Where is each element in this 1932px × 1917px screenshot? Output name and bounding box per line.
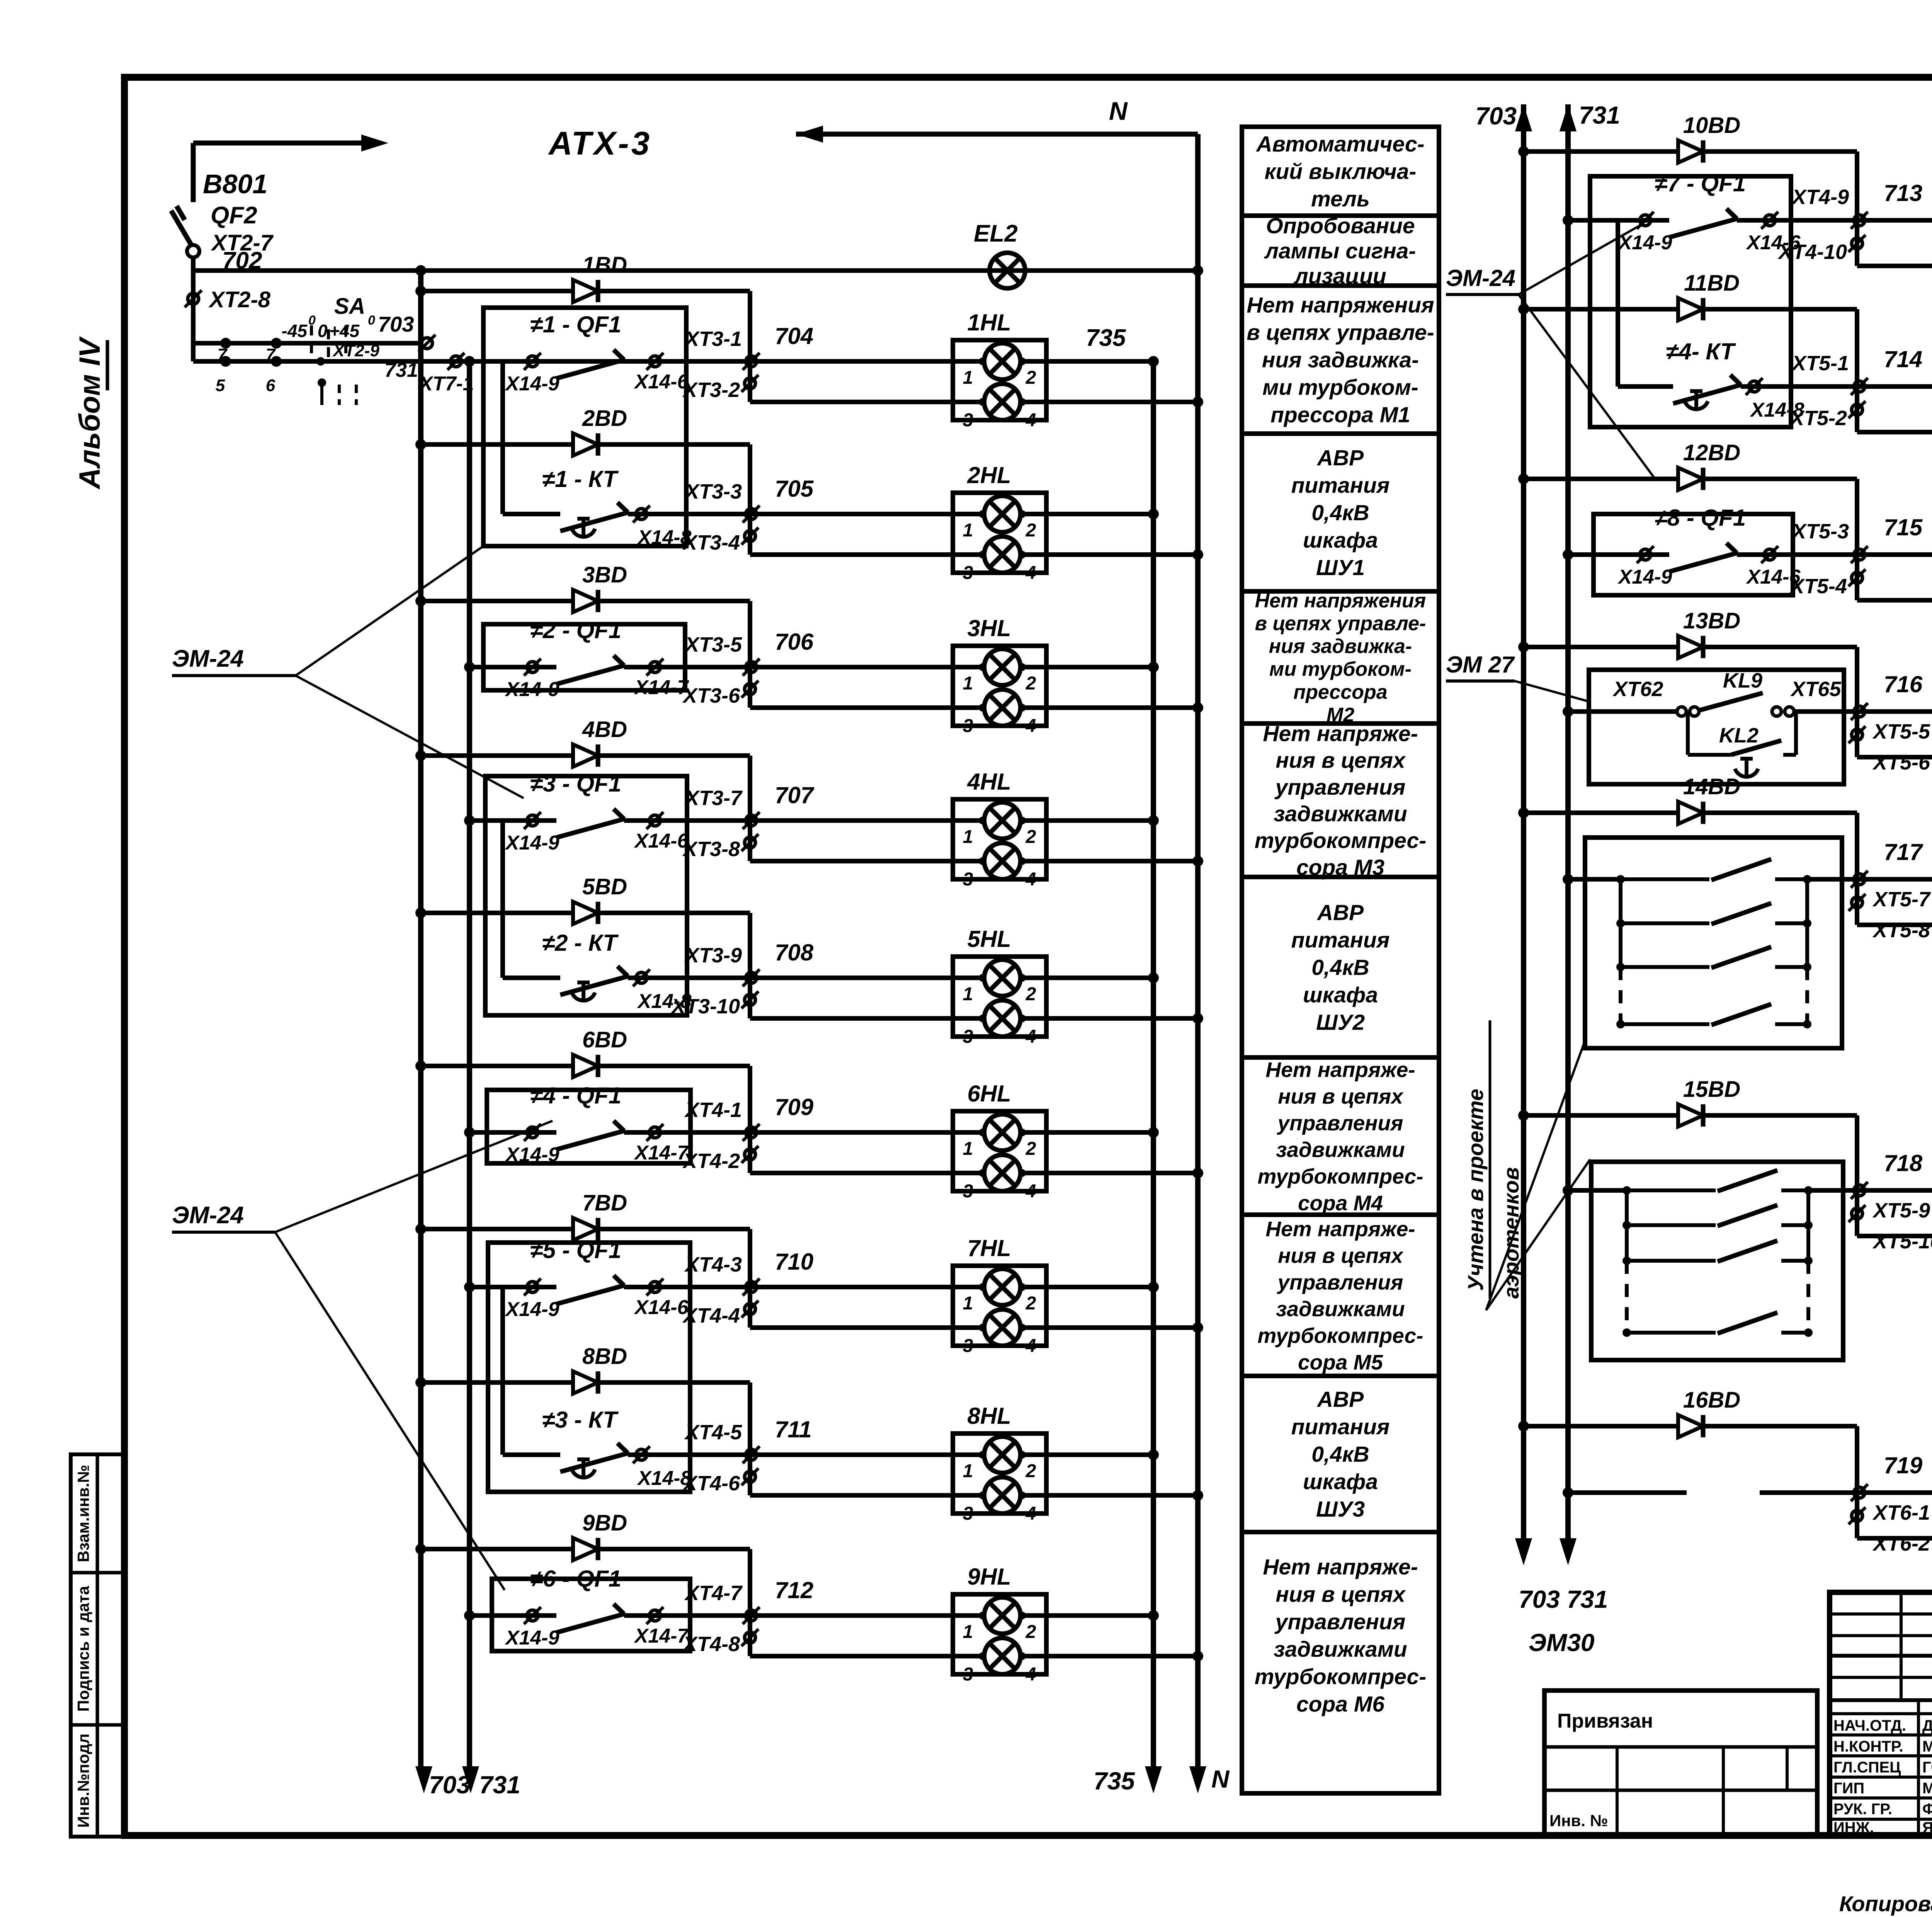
bus N left — [796, 132, 1198, 137]
dropper wire to lamp 10HL pins 3-4 — [1855, 152, 1859, 266]
svg-text:X14-9: X14-9 — [1617, 566, 1672, 588]
svg-text:МОСЕЕНКО: МОСЕЕНКО — [1922, 1738, 1932, 1755]
svg-text:714: 714 — [1884, 346, 1922, 372]
diode 6BD — [573, 1055, 598, 1077]
svg-text:ХТ3-8: ХТ3-8 — [682, 838, 740, 861]
svg-text:Н.КОНТР.: Н.КОНТР. — [1833, 1738, 1903, 1755]
node B801 riser — [191, 143, 196, 202]
terminal ХТ3-9 — [746, 972, 757, 983]
svg-text:3: 3 — [963, 716, 973, 736]
svg-text:0: 0 — [368, 313, 375, 328]
svg-text:N: N — [1109, 97, 1128, 125]
svg-text:2: 2 — [1026, 984, 1036, 1004]
svg-text:7BD: 7BD — [582, 1190, 627, 1216]
terminal ХТ4-3 — [746, 1282, 757, 1292]
svg-text:в цепях управле-: в цепях управле- — [1255, 613, 1426, 635]
svg-text:B801: B801 — [203, 169, 267, 199]
svg-text:X14-6: X14-6 — [1746, 232, 1801, 254]
wire lamp 9HL pin2 to bus 735 — [1020, 1613, 1153, 1618]
diode 5BD feed wire — [415, 907, 426, 918]
svg-text:716: 716 — [1884, 671, 1923, 697]
terminal ХТ3-6 — [745, 684, 755, 695]
svg-text:9BD: 9BD — [582, 1510, 627, 1536]
svg-text:4: 4 — [1026, 563, 1036, 583]
svg-text:ХТ7-1: ХТ7-1 — [418, 373, 474, 395]
diode 9BD — [573, 1538, 598, 1560]
dropper wire to lamp 1HL pins 3-4 — [748, 291, 752, 402]
svg-text:4: 4 — [1026, 1336, 1036, 1356]
svg-text:712: 712 — [775, 1577, 813, 1603]
wire lamp 3HL pin2 to bus 735 — [1020, 665, 1153, 669]
svg-text:Альбом IV: Альбом IV — [73, 336, 106, 490]
wire lamp 1HL pin4 to bus N — [1020, 400, 1198, 404]
svg-text:X14-9: X14-9 — [505, 373, 560, 395]
svg-text:прессора: прессора — [1293, 681, 1387, 703]
svg-text:X14-8: X14-8 — [637, 990, 692, 1013]
terminal XT2-8 — [191, 271, 196, 361]
dropper wire to lamp 4HL pins 3-4 — [748, 756, 752, 861]
svg-text:≠4 - QF1: ≠4 - QF1 — [530, 1083, 621, 1108]
terminal ХТ4-4 — [745, 1304, 755, 1314]
svg-text:ХТ5-1: ХТ5-1 — [1791, 352, 1849, 375]
svg-text:711: 711 — [775, 1416, 812, 1442]
svg-text:ХТ4-7: ХТ4-7 — [684, 1582, 743, 1605]
svg-text:задвижками: задвижками — [1274, 802, 1407, 826]
svg-text:ХТ2-9: ХТ2-9 — [332, 341, 379, 360]
svg-text:сора М6: сора М6 — [1296, 1692, 1384, 1716]
diode 4BD feed wire — [415, 750, 426, 761]
svg-text:735: 735 — [1094, 1767, 1135, 1795]
svg-text:управления: управления — [1274, 775, 1406, 800]
relay box #7-QF1 / #4-KT — [1590, 176, 1791, 427]
svg-text:шкафа: шкафа — [1303, 1469, 1378, 1494]
svg-text:ГИП: ГИП — [1833, 1780, 1864, 1797]
wire lamp 5HL pin4 to bus N — [1020, 1016, 1198, 1021]
dropper wire to lamp 13HL pins 3-4 — [1855, 647, 1859, 757]
svg-text:X14-9: X14-9 — [505, 678, 560, 701]
wire lamp 9HL pin4 to bus N — [1020, 1654, 1198, 1658]
svg-text:704: 704 — [775, 323, 813, 349]
svg-text:ния в цепях: ния в цепях — [1278, 1084, 1404, 1108]
switch SA row 7 — [193, 341, 410, 346]
svg-text:Взам.инв.№: Взам.инв.№ — [74, 1465, 92, 1562]
svg-text:1: 1 — [963, 1461, 973, 1481]
wire lamp 6HL pin2 to bus 735 — [1020, 1130, 1153, 1135]
svg-text:10BD: 10BD — [1683, 113, 1740, 138]
diode 12BD feed wire — [1518, 473, 1529, 484]
svg-text:ния задвижка-: ния задвижка- — [1262, 347, 1419, 372]
diode 10BD feed wire — [1518, 146, 1529, 157]
svg-text:KL9: KL9 — [1723, 669, 1762, 692]
svg-text:Нет напряже-: Нет напряже- — [1263, 1554, 1418, 1579]
diode 11BD feed wire — [1518, 304, 1529, 315]
svg-text:5BD: 5BD — [582, 874, 627, 899]
svg-text:731: 731 — [1579, 101, 1620, 129]
svg-text:1: 1 — [963, 827, 973, 847]
diode 12BD — [1678, 468, 1703, 490]
svg-text:12BD: 12BD — [1683, 440, 1740, 465]
svg-text:703: 703 — [1475, 102, 1517, 130]
svg-text:Автоматичес-: Автоматичес- — [1255, 132, 1424, 157]
svg-text:≠7 - QF1: ≠7 - QF1 — [1655, 170, 1746, 196]
breaker QF2 — [171, 211, 192, 246]
svg-text:ХТ3-7: ХТ3-7 — [684, 787, 743, 810]
diode 7BD feed wire — [415, 1224, 426, 1234]
svg-text:731: 731 — [479, 1771, 520, 1799]
svg-text:8HL: 8HL — [967, 1403, 1011, 1429]
svg-text:ШУ2: ШУ2 — [1316, 1010, 1365, 1035]
diode 4BD — [573, 744, 598, 767]
svg-text:4: 4 — [1026, 1181, 1036, 1202]
terminal ХТ5-2 — [1852, 404, 1862, 415]
svg-text:ФЕДОРОВА: ФЕДОРОВА — [1922, 1801, 1932, 1818]
diode 13BD feed wire — [1518, 642, 1529, 652]
svg-text:Опробование: Опробование — [1266, 214, 1415, 238]
svg-text:6HL: 6HL — [967, 1081, 1011, 1107]
terminal ХТ5-1 — [1854, 381, 1865, 392]
terminal XT7-1 — [451, 356, 461, 367]
breaker contact #1-QF1 — [469, 359, 556, 364]
terminal ХТ4-5 — [746, 1449, 757, 1460]
svg-text:X14-7: X14-7 — [634, 676, 689, 699]
diode 7BD — [573, 1218, 598, 1240]
svg-text:ми турбоком-: ми турбоком- — [1269, 658, 1412, 681]
svg-text:X14-9: X14-9 — [505, 832, 560, 854]
wire lamp 1HL pin2 to bus 735 — [1020, 359, 1153, 364]
terminal ХТ3-7 — [746, 815, 757, 826]
diode 1BD feed wire — [415, 286, 426, 296]
remote contact box upper — [1585, 838, 1842, 1048]
svg-text:≠4- КТ: ≠4- КТ — [1666, 339, 1736, 364]
svg-text:ХТ5-3: ХТ5-3 — [1791, 520, 1849, 543]
time relay contact #1-КТ — [500, 361, 505, 514]
svg-text:708: 708 — [775, 940, 814, 965]
svg-text:ЭМ-24: ЭМ-24 — [172, 1202, 244, 1229]
svg-text:ния в цепях: ния в цепях — [1276, 1582, 1406, 1607]
breaker contact #7 - QF1 — [1568, 218, 1669, 223]
svg-text:АТХ-3: АТХ-3 — [548, 125, 652, 162]
svg-text:МОСЕЕНКО: МОСЕЕНКО — [1922, 1780, 1932, 1797]
terminal ХТ4-1 — [746, 1127, 757, 1138]
svg-text:3: 3 — [963, 1181, 973, 1202]
dropper wire to lamp 8HL pins 3-4 — [748, 1382, 752, 1495]
svg-text:1: 1 — [963, 520, 973, 541]
svg-text:ХТ3-1: ХТ3-1 — [684, 327, 742, 351]
diode 10BD — [1678, 140, 1703, 163]
svg-text:1: 1 — [963, 673, 973, 694]
svg-text:ХТ4-1: ХТ4-1 — [684, 1098, 742, 1122]
svg-text:прессора М1: прессора М1 — [1270, 402, 1410, 427]
dropper wire to lamp 11HL pins 3-4 — [1855, 309, 1859, 432]
svg-text:Инв. №: Инв. № — [1549, 1811, 1608, 1830]
svg-text:ния задвижка-: ния задвижка- — [1269, 635, 1412, 658]
svg-text:X14-9: X14-9 — [505, 1298, 560, 1321]
wire lamp 4HL pin2 to bus 735 — [1020, 818, 1153, 823]
svg-text:13BD: 13BD — [1683, 608, 1740, 633]
svg-text:QF2: QF2 — [211, 202, 257, 229]
wire lamp 8HL pin2 to bus 735 — [1020, 1452, 1153, 1457]
dropper wire to lamp 6HL pins 3-4 — [748, 1066, 752, 1173]
svg-text:719: 719 — [1884, 1452, 1923, 1478]
breaker contact #8 - QF1 — [1568, 552, 1669, 557]
svg-text:703: 703 — [378, 312, 414, 336]
terminal ХТ4-9 — [1854, 215, 1865, 226]
svg-text:Копировал: Алешикова: Копировал: Алешикова — [1839, 1891, 1932, 1916]
relay box KL9 / KL2 — [1589, 670, 1844, 784]
diode 6BD feed wire — [415, 1061, 426, 1071]
svg-text:3: 3 — [963, 1336, 973, 1356]
svg-text:ШУ3: ШУ3 — [1316, 1497, 1365, 1522]
diode 9BD feed wire — [415, 1544, 426, 1554]
svg-text:3: 3 — [963, 869, 973, 890]
svg-text:6: 6 — [266, 376, 276, 395]
diode 14BD feed wire — [1518, 807, 1529, 818]
svg-text:11BD: 11BD — [1684, 271, 1740, 296]
svg-text:1: 1 — [963, 1139, 973, 1159]
svg-text:питания: питания — [1291, 1415, 1390, 1439]
svg-text:KL2: KL2 — [1719, 724, 1759, 747]
svg-text:АВР: АВР — [1316, 1387, 1364, 1412]
wire lamp 5HL pin2 to bus 735 — [1020, 976, 1153, 980]
svg-text:ГОЛЬЦМАН: ГОЛЬЦМАН — [1922, 1759, 1932, 1776]
dropper wire to lamp 15HL pins 3-4 — [1855, 1115, 1859, 1236]
svg-text:3: 3 — [963, 1027, 973, 1047]
svg-text:ЯНЧЕНКО: ЯНЧЕНКО — [1922, 1819, 1932, 1836]
svg-text:АВР: АВР — [1316, 446, 1364, 470]
terminal XT2-9 — [316, 357, 325, 366]
terminal ХТ5-10 — [1852, 1208, 1862, 1219]
breaker contact #5-QF1 — [469, 1285, 556, 1289]
svg-text:тель: тель — [1311, 187, 1370, 211]
svg-text:-45: -45 — [282, 321, 308, 341]
terminal ХТ3-8 — [745, 837, 755, 848]
svg-text:4HL: 4HL — [967, 769, 1011, 795]
svg-text:0: 0 — [318, 321, 328, 341]
svg-text:ХТ5-10: ХТ5-10 — [1872, 1230, 1932, 1253]
bus 731 left — [464, 356, 475, 367]
svg-text:0,4кВ: 0,4кВ — [1311, 955, 1369, 980]
diode 16BD — [1678, 1415, 1703, 1437]
svg-text:2: 2 — [1026, 827, 1036, 847]
diode 3BD feed wire — [415, 596, 426, 606]
svg-text:в цепях управле-: в цепях управле- — [1247, 320, 1434, 345]
diode 13BD — [1678, 636, 1703, 658]
wire lamp 3HL pin4 to bus N — [1020, 705, 1198, 710]
dropper wire to lamp 5HL pins 3-4 — [748, 913, 752, 1018]
svg-text:735: 735 — [1086, 325, 1126, 351]
svg-text:EL2: EL2 — [974, 220, 1018, 247]
breaker contact #4-QF1 — [469, 1130, 556, 1135]
svg-text:2: 2 — [1026, 368, 1036, 388]
svg-text:7HL: 7HL — [967, 1235, 1011, 1261]
terminal ХТ3-10 — [745, 994, 755, 1005]
svg-text:3: 3 — [963, 563, 973, 583]
breaker contact #3-QF1 — [469, 818, 556, 823]
svg-text:1: 1 — [963, 1622, 973, 1642]
wire 719 with gap — [1568, 1490, 1687, 1495]
dropper wire to lamp 9HL pins 3-4 — [748, 1549, 752, 1656]
title block outline — [1830, 1592, 1932, 1835]
svg-text:5: 5 — [216, 376, 225, 395]
svg-text:2BD: 2BD — [582, 406, 627, 431]
svg-text:X14-8: X14-8 — [637, 1467, 692, 1490]
svg-text:X14-6: X14-6 — [634, 1296, 689, 1319]
svg-text:управления: управления — [1274, 1609, 1406, 1634]
relay box #3-QF1 / #2-KT — [485, 776, 687, 1015]
svg-text:4: 4 — [1026, 1027, 1036, 1047]
svg-text:задвижками: задвижками — [1276, 1297, 1405, 1321]
diode 1BD — [573, 280, 598, 302]
svg-text:ХТ4-3: ХТ4-3 — [684, 1253, 742, 1276]
svg-text:706: 706 — [775, 629, 814, 655]
arrow to ATX-3 — [193, 141, 363, 146]
remote contact box lower — [1591, 1162, 1843, 1360]
diode 16BD feed wire — [1518, 1421, 1529, 1432]
svg-text:0,4кВ: 0,4кВ — [1311, 1442, 1369, 1467]
svg-text:2: 2 — [1026, 1139, 1036, 1159]
time relay contact #3-КТ — [500, 1287, 505, 1455]
svg-text:4: 4 — [1026, 716, 1036, 736]
svg-text:16BD: 16BD — [1683, 1388, 1740, 1413]
svg-text:ХТ3-5: ХТ3-5 — [684, 633, 742, 656]
legend column — [1242, 127, 1439, 216]
svg-text:ния в цепях: ния в цепях — [1278, 1243, 1404, 1267]
svg-text:шкафа: шкафа — [1303, 528, 1378, 553]
diode 8BD feed wire — [415, 1377, 426, 1388]
svg-text:703: 703 — [429, 1771, 470, 1799]
terminal ХТ5-4 — [1852, 572, 1862, 583]
bus 703 left — [415, 265, 426, 276]
svg-text:шкафа: шкафа — [1303, 982, 1378, 1007]
signature rows — [1830, 1712, 1932, 1715]
svg-text:аэротенков: аэротенков — [1499, 1167, 1523, 1299]
svg-text:≠2 - QF1: ≠2 - QF1 — [530, 617, 621, 643]
svg-text:турбокомпрес-: турбокомпрес- — [1258, 1323, 1423, 1347]
terminal ХТ3-5 — [746, 662, 757, 672]
wire lamp 8HL pin4 to bus N — [1020, 1493, 1198, 1498]
svg-text:ХТ5-9: ХТ5-9 — [1872, 1199, 1930, 1222]
terminal ХТ4-6 — [745, 1471, 755, 1482]
svg-text:1: 1 — [963, 368, 973, 388]
svg-text:≠1 - QF1: ≠1 - QF1 — [530, 312, 621, 337]
svg-text:2: 2 — [1026, 1293, 1036, 1314]
svg-text:кий выключа-: кий выключа- — [1265, 159, 1417, 184]
svg-text:Нет напряже-: Нет напряже- — [1265, 1217, 1415, 1241]
svg-text:X14-6: X14-6 — [634, 830, 689, 852]
svg-text:≠8 - QF1: ≠8 - QF1 — [1655, 505, 1746, 531]
diode 8BD — [573, 1371, 598, 1394]
svg-text:турбокомпрес-: турбокомпрес- — [1258, 1164, 1423, 1188]
svg-text:Нет напряжения: Нет напряжения — [1255, 590, 1426, 612]
diode 5BD — [573, 902, 598, 924]
svg-text:3BD: 3BD — [582, 562, 627, 587]
svg-text:0,4кВ: 0,4кВ — [1311, 501, 1369, 525]
svg-text:сора М4: сора М4 — [1298, 1191, 1383, 1215]
wire lamp 4HL pin4 to bus N — [1020, 859, 1198, 863]
svg-text:ХТ4-2: ХТ4-2 — [682, 1149, 740, 1173]
terminal ХТ3-1 — [746, 356, 757, 367]
svg-text:X14-6: X14-6 — [1746, 566, 1801, 588]
svg-text:ХТ4-9: ХТ4-9 — [1791, 186, 1849, 209]
svg-text:Подпись и дата: Подпись и дата — [74, 1586, 92, 1712]
svg-text:ШУ1: ШУ1 — [1316, 555, 1365, 580]
relay box #1-QF1 / #1-KT — [483, 308, 686, 546]
svg-text:X14-8: X14-8 — [1750, 399, 1804, 421]
svg-text:ЭМ-24: ЭМ-24 — [1446, 265, 1515, 291]
svg-text:ХТ6-2: ХТ6-2 — [1872, 1532, 1930, 1555]
dropper wire to lamp 7HL pins 3-4 — [748, 1229, 752, 1328]
binding table — [1544, 1691, 1817, 1835]
relay box #5-QF1 / #3-KT — [488, 1243, 690, 1492]
svg-text:ЭМ 27: ЭМ 27 — [1446, 652, 1515, 678]
svg-text:713: 713 — [1884, 180, 1922, 206]
svg-text:N: N — [1211, 1765, 1230, 1793]
terminal ХТ4-10 — [1852, 238, 1862, 249]
diode 11BD — [1678, 298, 1703, 320]
svg-text:1: 1 — [963, 1293, 973, 1314]
svg-text:709: 709 — [775, 1094, 814, 1120]
svg-text:14BD: 14BD — [1683, 774, 1740, 799]
svg-text:717: 717 — [1884, 839, 1923, 865]
svg-text:ния в цепях: ния в цепях — [1276, 748, 1406, 773]
terminal ХТ5-7 — [1854, 874, 1865, 885]
terminal ХТ3-4 — [745, 531, 755, 541]
svg-text:707: 707 — [775, 782, 815, 808]
svg-text:ИНЖ.: ИНЖ. — [1833, 1819, 1874, 1836]
svg-text:4: 4 — [1026, 869, 1036, 890]
svg-text:ХТ6-1: ХТ6-1 — [1872, 1501, 1930, 1524]
svg-text:ХТ65: ХТ65 — [1790, 678, 1841, 701]
terminal ХТ4-7 — [746, 1610, 757, 1621]
svg-text:2: 2 — [1026, 520, 1036, 541]
terminal ХТ5-8 — [1852, 897, 1862, 908]
wire lamp 2HL pin2 to bus 735 — [1020, 512, 1153, 516]
left margin stamp box — [71, 1454, 126, 1837]
diode 15BD feed wire — [1518, 1110, 1529, 1121]
bus 735 left — [1151, 361, 1156, 1766]
svg-text:ХТ4-5: ХТ4-5 — [684, 1421, 742, 1444]
terminal ХТ6-1 — [1854, 1487, 1865, 1498]
svg-text:718: 718 — [1884, 1150, 1923, 1176]
svg-text:ХТ5-5: ХТ5-5 — [1872, 720, 1930, 743]
relay box #6-QF1 — [492, 1579, 690, 1651]
terminal ХТ3-3 — [746, 509, 757, 519]
relay box #4-QF1 — [487, 1090, 690, 1163]
relay contact KL9 — [1568, 709, 1679, 714]
diode 2BD feed wire — [415, 439, 426, 450]
svg-text:ХТ2-8: ХТ2-8 — [208, 287, 271, 312]
svg-text:лампы сигна-: лампы сигна- — [1264, 238, 1416, 263]
diode 3BD — [573, 590, 598, 612]
svg-text:ХТ4-4: ХТ4-4 — [682, 1304, 740, 1327]
svg-text:3HL: 3HL — [967, 615, 1011, 641]
diode 14BD — [1678, 802, 1703, 824]
svg-text:703 731: 703 731 — [1519, 1585, 1608, 1613]
svg-text:1: 1 — [963, 984, 973, 1004]
wire lamp 2HL pin4 to bus N — [1020, 552, 1198, 557]
svg-text:ХТ3-9: ХТ3-9 — [684, 944, 742, 967]
svg-text:питания: питания — [1291, 473, 1390, 498]
svg-text:≠5 - QF1: ≠5 - QF1 — [530, 1237, 621, 1263]
svg-text:Нет напряже-: Нет напряже- — [1263, 722, 1418, 746]
svg-text:≠1 - КТ: ≠1 - КТ — [542, 466, 619, 492]
svg-text:турбокомпрес-: турбокомпрес- — [1255, 1664, 1426, 1689]
svg-text:задвижками: задвижками — [1276, 1137, 1405, 1161]
svg-text:6BD: 6BD — [582, 1027, 627, 1052]
time relay contact #2-КТ — [500, 821, 505, 978]
svg-text:5HL: 5HL — [967, 926, 1011, 952]
svg-text:2: 2 — [1026, 1622, 1036, 1642]
